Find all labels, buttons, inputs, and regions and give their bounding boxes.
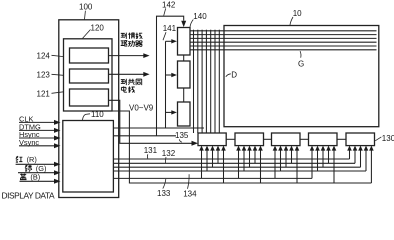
svg-text:100: 100 <box>79 2 93 11</box>
box1 risers <box>201 150 203 179</box>
label 10 <box>293 9 302 18</box>
branch arrow into stage 3 <box>166 111 172 113</box>
label 140 <box>193 12 207 21</box>
text 到共同 <box>121 79 142 85</box>
gate driver stage 3 <box>178 102 191 126</box>
svg-text:D: D <box>231 71 237 80</box>
svg-text:121: 121 <box>37 89 51 98</box>
label 110 <box>91 110 104 119</box>
svg-text:141: 141 <box>163 24 177 33</box>
data driver box 3 <box>272 133 301 146</box>
wire H1 (box 110 output) <box>113 127 204 129</box>
data driver box 135 (first) <box>198 133 226 146</box>
wire 141 (vertical bus feeding gate driver stages) <box>165 41 167 128</box>
svg-text:130: 130 <box>382 134 394 143</box>
svg-text:142: 142 <box>162 0 176 9</box>
box 100 (controller outer block) <box>59 20 119 198</box>
svg-text:120: 120 <box>91 24 105 33</box>
cascade wire box4-box5 <box>337 138 346 140</box>
label V0~V9 <box>129 104 154 113</box>
label DISPLAY DATA <box>2 191 55 201</box>
bus 5 <box>113 177 312 179</box>
svg-text:DISPLAY DATA: DISPLAY DATA <box>2 191 55 200</box>
input wire Hsync <box>19 137 56 139</box>
branch arrow into box 140 <box>166 40 172 42</box>
label 142 <box>162 0 176 9</box>
svg-text:140: 140 <box>193 12 207 21</box>
input wire CLK <box>19 121 56 123</box>
panel 10 <box>224 26 379 127</box>
svg-text:133: 133 <box>157 189 171 198</box>
box 110 (timing controller) <box>63 121 114 193</box>
svg-text:124: 124 <box>37 51 51 60</box>
label G <box>298 60 304 69</box>
risers and arrows under driver boxes <box>202 150 372 183</box>
label D <box>231 71 237 80</box>
branch arrow into stage 2 <box>166 74 172 76</box>
gate lines G <box>190 31 377 50</box>
text 驱动器 <box>121 40 143 46</box>
wire to gate driver (from box 124) <box>109 55 145 57</box>
label 134 <box>183 189 197 198</box>
box5 risers <box>349 150 351 159</box>
cascade wire 135-box2 <box>226 138 235 140</box>
bus 3 <box>113 166 360 168</box>
svg-text:G: G <box>298 60 304 69</box>
label 132 <box>162 149 176 158</box>
wire stage2-stage3 <box>183 88 185 102</box>
svg-text:131: 131 <box>144 146 158 155</box>
svg-text:134: 134 <box>183 189 197 198</box>
box2 risers <box>238 150 240 179</box>
box 120 (voltage generator block) <box>64 39 113 111</box>
text 蓝 (B) <box>20 174 27 180</box>
cascade wire box3-box4 <box>300 138 309 140</box>
label 123 <box>37 70 51 79</box>
data driver box 5 <box>346 133 375 146</box>
label 124 <box>37 51 51 60</box>
wire H2 (box 110 output) <box>113 135 176 137</box>
box 124 <box>70 48 109 63</box>
wire to common electrode (from box 123) <box>109 73 145 75</box>
svg-text:132: 132 <box>162 149 176 158</box>
data driver box 4 <box>309 133 338 146</box>
label 100 <box>79 2 93 11</box>
box 140 (gate driver stage 1) <box>178 28 191 56</box>
box 121 <box>70 89 109 106</box>
label 130 <box>382 134 394 143</box>
text 到栅极 <box>121 33 143 39</box>
svg-text:110: 110 <box>91 110 104 119</box>
wire from box 120 bottom to bus 134 <box>112 111 371 183</box>
input wire DTMG <box>19 129 56 131</box>
bus 131 <box>113 158 349 160</box>
gate driver stage 2 <box>178 61 191 88</box>
input wire B <box>20 180 57 182</box>
wire stage1-stage2 <box>183 55 185 61</box>
svg-text:123: 123 <box>37 70 51 79</box>
label 141 <box>163 24 177 33</box>
svg-text:(B): (B) <box>30 172 40 181</box>
svg-text:V0~V9: V0~V9 <box>129 104 154 113</box>
box4 risers <box>311 150 313 179</box>
box3 risers <box>274 150 276 179</box>
text 绿 (G) <box>25 165 32 171</box>
wire V0~V9 (from box 121 to data driver 135) <box>109 100 192 143</box>
label 133 <box>157 189 171 198</box>
svg-text:135: 135 <box>175 131 189 140</box>
cascade wire box2-box3 <box>264 138 272 140</box>
box 123 <box>70 69 109 83</box>
svg-text:Vsync: Vsync <box>19 138 39 147</box>
svg-text:10: 10 <box>293 9 302 18</box>
data lines D <box>194 30 220 133</box>
input wire R <box>16 163 56 165</box>
text 电极 <box>121 86 135 92</box>
label 120 <box>91 24 105 33</box>
input wire G <box>18 172 56 174</box>
arrowheads into driver boxes <box>199 146 374 151</box>
data driver box 2 <box>235 133 264 146</box>
label 121 <box>37 89 51 98</box>
label 131 <box>144 146 158 155</box>
input wire Vsync <box>19 145 56 147</box>
label 135 <box>175 131 189 140</box>
bus 4 <box>113 170 366 172</box>
bus 132 <box>113 162 355 164</box>
text 红 (R) <box>16 156 23 162</box>
wire 142 (to gate driver clock) <box>157 16 184 136</box>
